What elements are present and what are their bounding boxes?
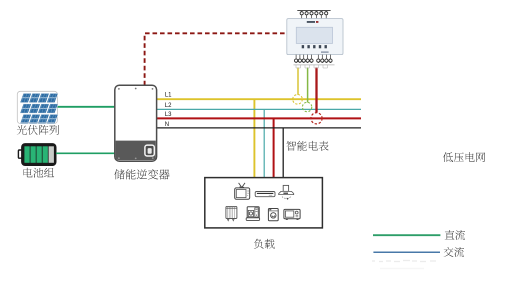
smart meter device bbox=[287, 11, 343, 68]
load icon: microwave oven bbox=[284, 209, 300, 219]
legend label: DC (zhi-liu) bbox=[445, 230, 465, 240]
legend label: AC (jiao-liu) bbox=[444, 247, 464, 257]
CT clamp on L1 (yellow dashed circle) bbox=[293, 95, 303, 105]
label: load (fu-zai) bbox=[254, 239, 275, 249]
load icon: air conditioner bbox=[255, 192, 275, 197]
PV array icon bbox=[17, 91, 58, 123]
svg-text:L3: L3 bbox=[165, 112, 172, 118]
wire: PV to inverter (DC, green) bbox=[58, 106, 115, 108]
load icon: range hood bbox=[279, 185, 294, 199]
wire L1 bus (yellow) bbox=[157, 98, 362, 100]
CT clamp on L2 (green dashed circle) bbox=[302, 102, 311, 111]
label: smart meter (zhi-neng-dian-biao) bbox=[286, 141, 328, 151]
wire L3 bus (red) bbox=[157, 117, 362, 119]
svg-text:N: N bbox=[165, 122, 169, 128]
load box bbox=[205, 178, 323, 228]
label L2 bbox=[165, 103, 172, 109]
load icon: coffee machine bbox=[246, 207, 259, 221]
label: energy storage inverter (chu-neng-ni-bian-qi) bbox=[114, 169, 169, 179]
load icon: washing machine bbox=[268, 209, 278, 221]
label: LV grid (di-ya-dian-wang) bbox=[443, 152, 485, 162]
wire: meter voltage sense C (red vertical) bbox=[315, 68, 317, 113]
CT clamp on L3 (red dashed circle) bbox=[311, 113, 322, 124]
faint watermark bbox=[372, 261, 436, 269]
label L1 bbox=[165, 93, 172, 99]
wire: meter voltage sense A (yellow vertical) bbox=[297, 68, 299, 95]
wire N bus (black) bbox=[157, 127, 362, 129]
wire: L2 branch to load (teal vertical) bbox=[263, 109, 265, 177]
label N bbox=[165, 122, 169, 128]
load icon: radiator heater bbox=[226, 206, 237, 220]
wire: N branch to load (black vertical) bbox=[282, 128, 284, 178]
wire: L3 branch to load (red vertical) bbox=[273, 118, 275, 177]
wire L2 bus (teal) bbox=[157, 108, 362, 110]
label: PV array (guang-fu-zhen-lie) bbox=[17, 125, 59, 135]
svg-text:L1: L1 bbox=[165, 93, 172, 99]
comm line: inverter to smart meter (dashed dark red) bbox=[145, 33, 287, 85]
legend: DC line sample (green) bbox=[373, 234, 440, 236]
legend: AC line sample (blue) bbox=[373, 251, 440, 253]
wire: L1 branch to load (yellow vertical) bbox=[253, 99, 255, 178]
label: battery pack (dian-chi-zu) bbox=[24, 168, 55, 178]
wire: battery to inverter (DC, green) bbox=[56, 152, 115, 154]
inverter U1 (energy storage inverter) bbox=[115, 85, 157, 161]
battery pack icon bbox=[18, 144, 55, 165]
label L3 bbox=[165, 112, 172, 118]
wire: meter voltage sense B (yellow-green vertical) bbox=[307, 68, 309, 103]
svg-text:L2: L2 bbox=[165, 103, 172, 109]
load icon: TV bbox=[235, 183, 250, 199]
